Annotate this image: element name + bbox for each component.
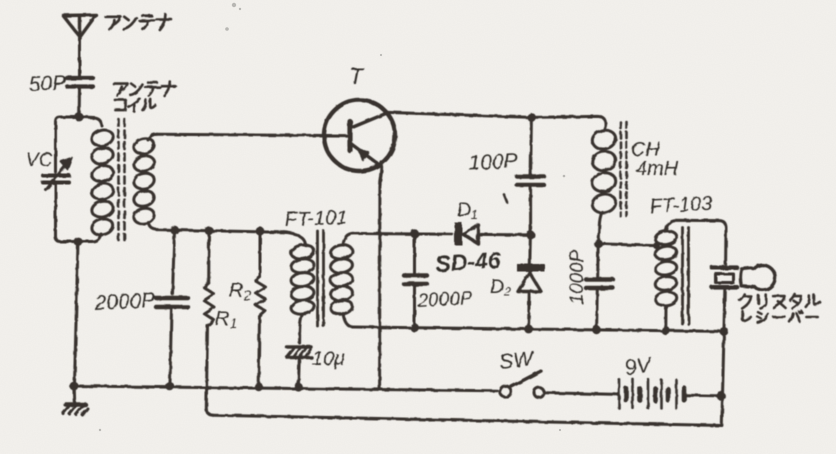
collector top rail — [388, 112, 606, 130]
capacitor 10u electrolytic — [287, 347, 312, 358]
svg-text:2000P: 2000P — [93, 289, 156, 315]
label reshiibaa — [743, 311, 818, 323]
capacitor C2 2000P — [156, 298, 188, 307]
ground bus — [74, 386, 497, 391]
variable capacitor VC — [43, 158, 72, 191]
node C 2000P top — [170, 226, 179, 235]
FT-103 core — [683, 228, 689, 325]
svg-text:4mH: 4mH — [636, 158, 679, 180]
wire bottom return — [213, 415, 722, 425]
svg-text:2000P: 2000P — [416, 288, 473, 312]
wire VC to node B — [56, 185, 75, 242]
node I 10u bottom — [294, 383, 303, 392]
resistor R1 — [204, 231, 214, 416]
crystal receiver — [712, 265, 775, 329]
node N D2 bottom — [524, 325, 533, 334]
node G 2000P bottom — [166, 382, 175, 391]
choke CH core — [621, 122, 627, 216]
antenna coil core — [119, 119, 125, 240]
transformer FT-103 primary — [654, 220, 726, 328]
svg-text:T: T — [349, 63, 365, 89]
transistor T — [324, 100, 395, 185]
node M 2000P mid bottom — [410, 323, 419, 332]
switch SW — [500, 371, 544, 398]
node Q receiver bottom — [720, 327, 729, 336]
wire right vertical — [722, 331, 724, 425]
node H R2 bottom — [254, 382, 263, 391]
capacitor 1000P — [586, 244, 613, 330]
wire 10u to bus — [297, 358, 301, 386]
node B — [74, 237, 83, 246]
node S FT103 in — [653, 242, 660, 249]
svg-text:1000P: 1000P — [567, 249, 588, 304]
wire node A to VC — [56, 117, 76, 172]
FT-101 core — [318, 231, 324, 326]
wire antenna to 50P — [78, 37, 81, 76]
svg-text:FT-101: FT-101 — [284, 207, 347, 231]
stray mark — [504, 195, 507, 203]
node T battery right — [717, 392, 726, 401]
svg-text:VC: VC — [26, 150, 53, 171]
wire emitter down — [378, 185, 381, 390]
wire node B to ground — [75, 242, 79, 385]
wire L2 bottom rail — [157, 230, 287, 233]
node L D1 right — [526, 231, 535, 240]
node E R2 top — [256, 227, 265, 236]
paper specks — [99, 3, 566, 431]
wire C2 to bus — [170, 307, 172, 384]
label antenna (top) — [106, 15, 172, 30]
svg-text:10μ: 10μ — [312, 348, 345, 370]
antenna coil primary L1 — [80, 117, 115, 242]
node A — [75, 113, 84, 122]
node O 1000P bottom — [592, 325, 601, 334]
antenna — [63, 15, 96, 37]
resistor R2 — [256, 231, 266, 383]
label kurisutaru — [740, 294, 820, 308]
battery 9V — [619, 379, 684, 409]
svg-text:FT-103: FT-103 — [649, 193, 713, 218]
node F ground — [70, 382, 79, 391]
capacitor 100P — [517, 117, 544, 231]
wire node C down — [173, 230, 175, 294]
node J 100P top — [527, 113, 536, 122]
wire node R to FT103 — [599, 244, 655, 246]
node K 2000P mid top — [410, 229, 419, 238]
diode D1 — [455, 223, 528, 246]
antenna coil secondary L2 — [132, 134, 157, 229]
transformer FT-101 secondary — [330, 233, 354, 327]
wire SW to battery — [544, 393, 618, 395]
transformer FT-101 primary — [284, 232, 315, 343]
svg-text:100P: 100P — [468, 149, 518, 175]
ground symbol — [63, 386, 88, 415]
capacitor 2000P mid — [404, 234, 427, 328]
wire battery to node T — [686, 394, 717, 398]
wire base (L2 top to transistor) — [157, 134, 347, 135]
choke CH coil — [591, 128, 618, 240]
node D R1 top — [205, 226, 214, 235]
wire bottom mid rail — [352, 327, 724, 331]
svg-text:SW: SW — [498, 347, 536, 374]
label anntena koiru line1 — [114, 82, 176, 96]
capacitor 50P — [67, 78, 93, 87]
wire 50P to node A — [78, 87, 81, 114]
node P FT103 bottom — [661, 326, 670, 335]
node R choke bottom — [594, 239, 603, 248]
wire FT101 secondary top to D1 — [352, 232, 452, 236]
svg-text:SD-46: SD-46 — [435, 246, 502, 276]
diode D2 — [517, 235, 545, 329]
label anntena koiru line2 — [115, 98, 156, 111]
svg-text:50P: 50P — [28, 72, 66, 96]
